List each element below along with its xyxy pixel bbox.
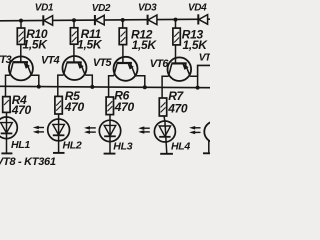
svg-text:VT3: VT3 xyxy=(0,54,12,66)
diode VD4 xyxy=(188,2,208,24)
transistor VT4 xyxy=(41,55,87,80)
arrows HL2 xyxy=(33,126,44,134)
svg-text:HL1: HL1 xyxy=(11,139,30,151)
wire R13 to VT6 base xyxy=(175,45,177,64)
svg-text:VT7: VT7 xyxy=(199,52,210,63)
wire VT4 emitter to rail xyxy=(85,75,92,87)
svg-text:HL3: HL3 xyxy=(113,140,132,152)
wire R12 to VT5 base xyxy=(122,45,124,63)
node emitter VT5 xyxy=(143,85,147,89)
svg-text:VT4: VT4 xyxy=(41,55,60,67)
wire VT4 collector to R5 xyxy=(58,75,64,96)
node emitter VT6 xyxy=(196,86,200,90)
node emitter VT3 xyxy=(37,85,41,89)
svg-text:470: 470 xyxy=(167,101,188,115)
resistor R5 xyxy=(55,89,85,114)
wire VT6 emitter to rail xyxy=(190,76,198,87)
LED HL1 xyxy=(0,117,30,153)
svg-text:1,5K: 1,5K xyxy=(183,38,209,52)
resistor R6 xyxy=(106,88,134,114)
resistor R4 xyxy=(3,93,32,117)
wire R10 to VT3 base xyxy=(20,44,22,62)
svg-text:HL2: HL2 xyxy=(63,140,82,152)
wire node D to R13 xyxy=(175,20,177,29)
transistor VT3 xyxy=(0,54,33,80)
node C (junction top rail col3) xyxy=(121,18,125,22)
LED HL2 xyxy=(48,119,82,153)
svg-text:VD1: VD1 xyxy=(35,3,54,14)
diode VD2 xyxy=(92,3,111,25)
resistor R13 xyxy=(173,27,208,52)
svg-text:470: 470 xyxy=(114,100,135,114)
LED HL4 xyxy=(154,121,190,154)
wire R6 to HL3 xyxy=(109,115,111,121)
arrows HL3 xyxy=(84,126,96,134)
svg-text:1,5K: 1,5K xyxy=(77,38,103,52)
wire VT5 collector to R6 xyxy=(109,76,114,97)
svg-text:VD3: VD3 xyxy=(138,2,157,13)
node A (junction top rail col1) xyxy=(19,19,23,23)
node B (junction top rail col2) xyxy=(72,18,76,22)
wire VT6 collector to R7 xyxy=(162,76,168,98)
LED HL3 xyxy=(99,120,132,153)
node D (junction top rail col4) xyxy=(174,18,178,22)
node emitter VT4 xyxy=(90,85,94,89)
wire R4 to HL1 xyxy=(6,112,8,117)
svg-text:VT5: VT5 xyxy=(93,57,113,69)
svg-text:VD4: VD4 xyxy=(188,2,207,13)
resistor R7 xyxy=(159,89,188,116)
svg-text:470: 470 xyxy=(11,103,32,117)
LED HL5 (partial at right edge) xyxy=(203,121,225,153)
svg-text:HL4: HL4 xyxy=(171,140,190,152)
wire node B to R11 xyxy=(73,20,75,28)
arrows HL4 xyxy=(138,126,150,133)
resistor R12 xyxy=(119,28,157,53)
wire node C to R12 xyxy=(122,20,124,28)
transistor VT5 xyxy=(93,57,138,81)
wire emitter rail xyxy=(0,86,210,87)
svg-text:1,5K: 1,5K xyxy=(132,38,158,52)
svg-text:VD2: VD2 xyxy=(92,3,111,14)
wire node A to R10 xyxy=(20,21,22,29)
svg-text:1,5K: 1,5K xyxy=(23,38,49,52)
wire to VT7 xyxy=(198,65,210,76)
wire R5 to HL2 xyxy=(58,114,60,119)
wire VT3 emitter to rail xyxy=(31,75,38,86)
diode VD1 xyxy=(35,3,54,26)
resistor R10 xyxy=(17,27,48,52)
wire VT3 collector to R4 xyxy=(6,75,10,96)
wire top rail xyxy=(0,19,210,21)
wire R11 to VT4 base xyxy=(73,44,75,62)
svg-text:VT6: VT6 xyxy=(150,58,170,70)
diode VD3 xyxy=(138,2,157,25)
wire VT5 emitter to rail xyxy=(135,76,145,88)
svg-text:470: 470 xyxy=(64,100,85,114)
resistor R11 xyxy=(70,27,102,52)
transistor VT6 xyxy=(150,57,191,81)
wire R7 to HL4 xyxy=(163,116,166,121)
arrows HL5 xyxy=(189,126,200,134)
svg-text:VT8 - KT361: VT8 - KT361 xyxy=(0,156,56,168)
